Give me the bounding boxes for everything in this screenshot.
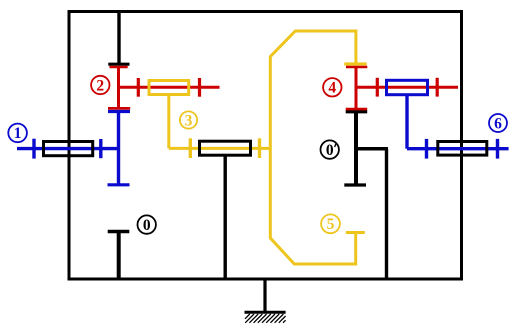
gear tick 6b xyxy=(496,139,499,159)
element 4 vertical link xyxy=(355,67,358,109)
shaft 3 xyxy=(169,147,271,150)
carrier 5 outline xyxy=(270,31,356,264)
gear tick 1a xyxy=(32,139,35,159)
brake cap 0 lower-left xyxy=(108,230,130,233)
shaft 4 xyxy=(356,86,458,89)
bearing box on shaft 2 (yellow) xyxy=(149,81,189,95)
svg-text:2: 2 xyxy=(96,77,104,94)
ground symbol xyxy=(245,312,286,323)
element 0 branch vertical to housing xyxy=(385,149,388,279)
bearing stem to housing xyxy=(223,156,226,279)
clutch cap 0 top xyxy=(108,63,129,66)
element 0 top stem (housing link) xyxy=(117,12,120,64)
shaft 6 (output) xyxy=(407,147,509,150)
shaft 2 xyxy=(117,86,220,89)
svg-text:4: 4 xyxy=(328,80,336,97)
clutch cap 1 upper xyxy=(108,110,130,113)
gear tick 2a xyxy=(137,78,140,97)
svg-text:1: 1 xyxy=(14,125,22,142)
clutch cap 5 top xyxy=(344,62,366,65)
clutch cap 2 upper xyxy=(110,66,128,69)
brake stem 0 lower-left xyxy=(117,232,121,280)
clutch cap 4 upper xyxy=(346,66,367,69)
element 1 vertical link xyxy=(117,110,120,185)
element 2 vertical link xyxy=(117,66,120,109)
housing frame 0 xyxy=(69,12,462,280)
svg-text:5: 5 xyxy=(327,216,335,233)
clutch cap 0 mid xyxy=(346,110,368,113)
svg-text:6: 6 xyxy=(494,115,502,132)
element 0 mid stem xyxy=(354,112,358,184)
element 3 stem xyxy=(167,96,170,148)
ground stem xyxy=(263,279,266,312)
label 5 xyxy=(321,214,340,233)
bearing box on shaft 6 xyxy=(438,142,487,156)
gear tick 6a xyxy=(425,139,428,159)
clutch cap 4 lower xyxy=(346,108,368,111)
gear tick 3b xyxy=(258,138,261,158)
label 3 xyxy=(180,111,197,129)
label 0 left xyxy=(138,215,156,233)
clutch cap 1 lower xyxy=(108,183,130,186)
svg-text:3: 3 xyxy=(185,112,193,129)
bearing box on shaft 3 xyxy=(200,141,251,155)
gear tick 4b xyxy=(436,78,439,97)
label 4 xyxy=(323,78,341,96)
clutch cap 2 lower xyxy=(108,107,130,110)
label 1 xyxy=(8,124,27,143)
gear tick 4a xyxy=(376,78,379,97)
element 6 stem xyxy=(405,96,408,149)
svg-text:0: 0 xyxy=(326,142,334,159)
label 6 xyxy=(489,114,507,132)
gear tick 3a xyxy=(189,138,192,158)
label 0-prime mid xyxy=(321,140,339,158)
svg-text:0: 0 xyxy=(143,217,151,234)
gear tick 2b xyxy=(198,78,201,97)
bearing box on shaft 4 (blue) xyxy=(387,80,428,94)
label 2 xyxy=(91,76,109,95)
brake cap 0 mid bottom xyxy=(344,183,366,186)
gear tick 1b xyxy=(99,139,102,158)
clutch cap 5 bottom xyxy=(346,231,365,234)
shaft 1 (input) xyxy=(17,147,119,150)
bearing box on shaft 1 xyxy=(44,142,93,156)
element 0 branch horizontal xyxy=(356,147,388,150)
